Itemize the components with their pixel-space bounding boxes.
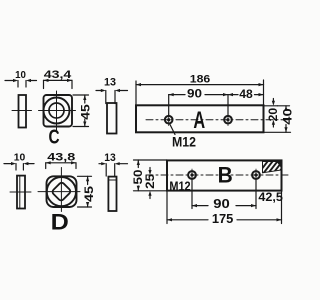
svg-text:A: A xyxy=(193,107,205,134)
label D xyxy=(51,210,69,235)
svg-text:10: 10 xyxy=(15,70,26,81)
dimension 48 xyxy=(228,93,264,96)
svg-text:13: 13 xyxy=(104,77,116,89)
part D circle xyxy=(47,177,76,206)
dimension 25 (left of B) xyxy=(148,168,151,199)
svg-text:186: 186 xyxy=(190,74,211,86)
part C outer circle xyxy=(44,98,70,124)
label A xyxy=(193,107,205,134)
svg-text:D: D xyxy=(51,210,69,235)
svg-text:40: 40 xyxy=(281,108,295,125)
dimension 175 (below B) xyxy=(167,191,282,224)
hole 1 of B (M12) xyxy=(188,169,196,181)
label B xyxy=(218,162,233,188)
plate A side view (13 thick) xyxy=(107,103,117,134)
part B bar outline xyxy=(167,160,282,190)
svg-text:25: 25 xyxy=(144,173,157,189)
svg-text:90: 90 xyxy=(213,196,230,211)
dimension 10 line (bottom) xyxy=(4,162,34,170)
part D square hole (diamond) xyxy=(51,182,71,202)
part A bar outline xyxy=(136,105,264,132)
svg-text:90: 90 xyxy=(187,86,202,100)
hole 2 of B xyxy=(252,169,260,181)
dimension 45 (part D) xyxy=(78,176,92,207)
label C xyxy=(48,125,59,148)
part D centerlines xyxy=(60,168,62,212)
plate B side view (13 thick) xyxy=(108,177,116,211)
dimension 43,4 line with arrows xyxy=(44,79,73,89)
part C inner circle xyxy=(49,103,64,118)
svg-text:M12: M12 xyxy=(169,179,190,194)
svg-text:B: B xyxy=(218,162,233,188)
dimension 43,8 line xyxy=(46,161,76,168)
svg-text:10: 10 xyxy=(14,152,26,163)
svg-text:48: 48 xyxy=(239,87,253,101)
hatched corner detail on B xyxy=(258,159,287,178)
dimension 13 line (bottom) xyxy=(99,162,128,176)
dimension 13 line with arrows xyxy=(96,89,128,104)
M12 label for A with leader xyxy=(170,124,176,135)
plate D side view inner edge line xyxy=(19,176,21,208)
hole 2 of A xyxy=(224,114,232,126)
part B centerline (dashed) xyxy=(146,174,290,176)
plate D side view (10 thick) xyxy=(17,176,25,209)
svg-text:45: 45 xyxy=(79,104,93,120)
dimension 50 (left of B) xyxy=(134,160,168,191)
svg-text:C: C xyxy=(48,125,59,148)
part A centerline (dashed) xyxy=(146,119,290,121)
part C square outline xyxy=(44,95,73,127)
svg-text:M12: M12 xyxy=(172,134,196,149)
svg-text:175: 175 xyxy=(212,211,234,226)
dimension 186 line xyxy=(136,80,264,105)
part C centerlines xyxy=(56,91,58,130)
centerline of plate D side view xyxy=(10,191,31,193)
dimension 10 line with arrows xyxy=(5,79,37,87)
plate C side view (10 thick) xyxy=(19,95,27,128)
dimension 45 (part C) xyxy=(73,95,89,127)
svg-text:42,5: 42,5 xyxy=(258,190,283,204)
plate B side view inner top line xyxy=(108,179,116,181)
dimension 90 (below B) xyxy=(192,179,256,209)
dimension 20 (right of A) xyxy=(264,99,278,128)
svg-text:13: 13 xyxy=(104,152,116,164)
svg-text:45: 45 xyxy=(82,186,96,202)
dimension 90 (part A) xyxy=(169,93,228,116)
dimension 40 (right of A) xyxy=(264,106,291,133)
hole 1 of A (M12) xyxy=(165,114,173,126)
centerline of plate C side view xyxy=(12,110,32,112)
part D square outline (rounded) xyxy=(47,176,77,207)
svg-text:20: 20 xyxy=(268,108,280,122)
